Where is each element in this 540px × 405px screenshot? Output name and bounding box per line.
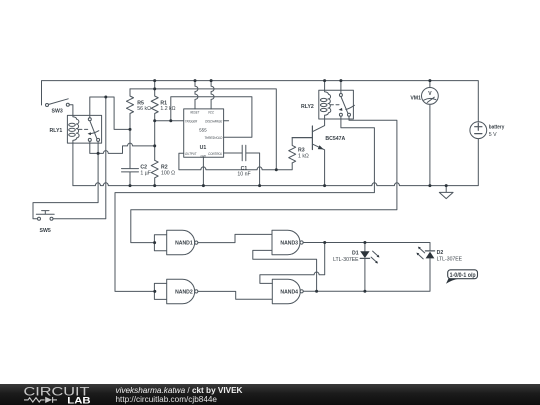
svg-text:OUTPUT: OUTPUT bbox=[185, 152, 197, 156]
wire NAND4 output to D2 bottom bbox=[303, 259, 430, 292]
pin CONTROL stub to C1 bbox=[224, 152, 243, 154]
resistor R1 bbox=[151, 81, 158, 161]
switch SW3 bbox=[46, 99, 70, 107]
diode D1 LED bbox=[360, 243, 379, 292]
voltmeter VM1 bbox=[422, 81, 439, 186]
svg-text:DISCHARGE: DISCHARGE bbox=[205, 119, 222, 123]
svg-text:555: 555 bbox=[199, 128, 207, 133]
battery V1 5V bbox=[470, 122, 487, 139]
svg-text:10 nF: 10 nF bbox=[237, 172, 250, 178]
transistor BC547A bbox=[292, 119, 324, 186]
svg-text:SW3: SW3 bbox=[52, 109, 63, 115]
switch SW5 (pushbutton) bbox=[36, 211, 54, 221]
junctions on VCC top rail (R1, RESET, VCC, RLY2 coil, RLY2 common, VM1) bbox=[153, 79, 431, 82]
diode D2 LED bbox=[416, 247, 434, 259]
wire RLY1 NC contact down-right to junction bbox=[90, 141, 98, 153]
wire R5 top / R1 top to 555 output loop column bbox=[130, 89, 276, 170]
junction R1-R2 node / relay contact wire bbox=[153, 144, 156, 147]
svg-text:LAB: LAB bbox=[67, 396, 91, 405]
wire NAND1 output to NAND3 top input bbox=[198, 234, 272, 242]
wire RLY1 coil bottom to ground rail bbox=[72, 143, 74, 186]
svg-text:battery: battery bbox=[489, 125, 505, 131]
pin RESET stub (hops two wires) bbox=[195, 81, 198, 109]
wire ground rail (hops x=97.9,105.8,374.4,396.9) bbox=[73, 139, 478, 186]
svg-text:U1: U1 bbox=[200, 145, 207, 151]
pin DISCHARGE stub bbox=[224, 120, 229, 122]
svg-text:1 µF: 1 µF bbox=[140, 171, 150, 177]
junction R1 top / R5 wire bbox=[153, 87, 156, 90]
svg-text:R2: R2 bbox=[161, 164, 168, 170]
svg-text:TRIGGER: TRIGGER bbox=[185, 119, 197, 123]
junctions on ground rail (C2, R2, 555 GND, C1, emitter, VM1, ground) bbox=[129, 184, 448, 187]
logo resistor + diode squiggle bbox=[24, 397, 57, 403]
wire NAND2 output to NAND4 bottom input bbox=[198, 291, 272, 299]
svg-text:SW5: SW5 bbox=[40, 228, 51, 234]
svg-text:LTL-307EE: LTL-307EE bbox=[333, 257, 359, 263]
svg-text:NAND2: NAND2 bbox=[175, 290, 193, 296]
junction RLY1 bottom contacts tie bbox=[97, 152, 100, 155]
junction RLY1 common wire / SW5 branch bbox=[104, 96, 107, 99]
relay RLY2 bbox=[319, 81, 355, 119]
wire RLY2 NO contact to NAND1 input (hop over ground rail) bbox=[131, 116, 397, 242]
svg-text:RLY2: RLY2 bbox=[301, 104, 314, 110]
resistor R5 bbox=[127, 89, 134, 169]
wire VCC top rail (battery + to SW3) bbox=[42, 81, 479, 122]
relay RLY1 bbox=[67, 115, 101, 143]
wire NAND3 output to D2 top bbox=[303, 243, 430, 251]
svg-text:C2: C2 bbox=[140, 164, 147, 170]
resistor R2 bbox=[151, 160, 158, 185]
svg-text:BC547A: BC547A bbox=[325, 136, 345, 142]
junction NAND2 tied inputs bbox=[153, 290, 156, 293]
logic gate NAND2 bbox=[154, 279, 198, 304]
svg-text:VCC: VCC bbox=[208, 110, 214, 114]
capacitor C2 bbox=[122, 169, 139, 186]
wire RLY1 NO contact down to junction then to SW5 left bbox=[33, 141, 98, 218]
pin GND stub down to ground rail bbox=[202, 157, 204, 185]
svg-text:THRESHOLD: THRESHOLD bbox=[204, 136, 222, 140]
wire NAND3 output cross-couple to NAND4 top input (hop x=316.6) bbox=[260, 243, 325, 284]
svg-text:GND: GND bbox=[200, 155, 206, 159]
logic gate NAND1 bbox=[154, 230, 198, 255]
junctions NAND3 output wire (cross-couple, D1 anode) bbox=[323, 241, 366, 244]
svg-text:D1: D1 bbox=[352, 250, 359, 256]
junction OUTPUT wire / R5-R1 top column bbox=[275, 168, 278, 171]
wire RLY1 bottom contacts to R1/R2 node (hops x=105.8 and x=130) bbox=[98, 143, 155, 153]
wire net from RLY1 common junction down to SW5 right bbox=[53, 97, 106, 219]
svg-text:LTL-307EE: LTL-307EE bbox=[437, 257, 463, 263]
logic gate NAND4 bbox=[272, 279, 303, 304]
svg-text:http://circuitlab.com/cjb844e: http://circuitlab.com/cjb844e bbox=[116, 395, 218, 404]
footer bar bbox=[0, 384, 540, 405]
wire SW3 to RLY1 coil top bbox=[69, 105, 73, 116]
capacitor C1 bbox=[242, 145, 259, 185]
wire 555 OUTPUT to R3 bottom (hops x=203.4 and x=259.6) bbox=[179, 153, 292, 170]
junction node R5 bottom / C2 top bbox=[129, 128, 132, 131]
svg-text:CONTROL: CONTROL bbox=[208, 152, 222, 156]
svg-text:RESET: RESET bbox=[190, 110, 199, 114]
svg-text:NAND4: NAND4 bbox=[280, 289, 298, 295]
svg-text:RLY1: RLY1 bbox=[50, 128, 63, 134]
resistor R3 bbox=[289, 138, 296, 163]
annotation speech bubble 1-0/0-1 o/p bbox=[446, 270, 478, 284]
wire RLY2 common to VCC rail bbox=[340, 81, 342, 94]
ground symbol bbox=[439, 186, 453, 199]
wire RLY2 NC contact to NAND2 input (hop over ground rail) bbox=[115, 116, 374, 291]
svg-text:1.2 kΩ: 1.2 kΩ bbox=[160, 106, 175, 112]
junctions NAND4 output wire (cross-couple, D1 cathode) bbox=[315, 290, 366, 293]
IC U1 555 timer box bbox=[184, 109, 224, 157]
svg-text:100 Ω: 100 Ω bbox=[161, 171, 175, 177]
pin VCC stub (hops two wires) bbox=[211, 81, 214, 109]
logic gate NAND3 bbox=[272, 230, 303, 255]
svg-text:viveksharma.katwa / ckt by VIV: viveksharma.katwa / ckt by VIVEK bbox=[116, 386, 243, 395]
wire NAND4 output cross-couple to NAND3 bottom input bbox=[253, 250, 317, 291]
svg-text:NAND1: NAND1 bbox=[175, 241, 193, 247]
svg-text:D2: D2 bbox=[437, 250, 444, 256]
svg-text:56 kΩ: 56 kΩ bbox=[137, 106, 151, 112]
svg-text:VM1: VM1 bbox=[410, 95, 421, 101]
svg-text:1 kΩ: 1 kΩ bbox=[298, 153, 309, 159]
svg-text:NAND3: NAND3 bbox=[280, 241, 298, 247]
junction NAND1 tied inputs bbox=[153, 241, 156, 244]
wire RLY1 contact common up and over to R5/C2 node bbox=[90, 97, 130, 129]
svg-text:5 V: 5 V bbox=[489, 132, 497, 138]
svg-text:1-0/0-1 o/p: 1-0/0-1 o/p bbox=[450, 273, 476, 279]
junctions node TRIGGER / R1 bottom bbox=[153, 119, 172, 122]
wire TRIGGER pin net bbox=[155, 97, 252, 138]
